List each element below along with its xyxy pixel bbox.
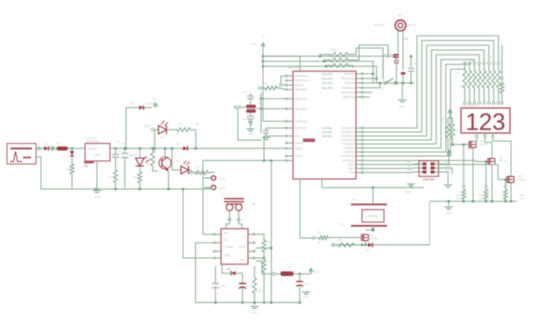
junction VCC row1 (262, 55, 265, 58)
svg-text:Q4: Q4 (518, 174, 522, 178)
resistor network RN2 (328, 58, 350, 67)
switch S1 row wire (377, 82, 415, 84)
svg-text:AGND: AGND (295, 141, 303, 145)
svg-text:S2: S2 (340, 223, 344, 226)
svg-text:RST: RST (408, 170, 413, 172)
junction C6 node (124, 147, 127, 150)
svg-text:D1: D1 (44, 142, 48, 146)
voltage regulator VR1 (84, 136, 110, 168)
svg-text:R8: R8 (441, 118, 445, 121)
resistor R12 pulldown (479, 160, 488, 201)
diode D7 (226, 267, 243, 276)
svg-text:R2: R2 (66, 167, 70, 171)
wire vertical to D3 chain (125, 108, 128, 150)
svg-text:D7: D7 (227, 267, 231, 271)
svg-text:MISO: MISO (406, 162, 412, 164)
fuse F1 (57, 142, 68, 151)
svg-text:C13: C13 (247, 285, 252, 288)
speaker SP1 buzzer (374, 13, 416, 31)
capacitor C13 tantalum (239, 276, 252, 303)
svg-text:PD0(RXD): PD0(RXD) (295, 88, 307, 92)
svg-text:GND: GND (399, 105, 405, 109)
connector JP1 pin 1 (205, 176, 226, 181)
svg-text:ADJ: ADJ (95, 153, 101, 157)
wire rn right bends (350, 48, 383, 79)
svg-text:PB4(MISO): PB4(MISO) (342, 90, 355, 94)
wire XTAL2 row (260, 107, 285, 110)
svg-text:L1: L1 (281, 278, 284, 282)
svg-text:SW200D: SW200D (368, 214, 379, 218)
component C9 small (401, 46, 405, 83)
wire F1 to VR1 (68, 147, 85, 149)
wire gnd rail to JP1 pin2 (205, 188, 215, 190)
wire C12 top (215, 266, 217, 270)
junction C5 gnd (114, 188, 117, 191)
resistor R4 below LED1 (133, 166, 142, 189)
svg-text:PC1(ADC1): PC1(ADC1) (341, 130, 355, 134)
wire IC3 right pin1 feedback (256, 234, 265, 238)
supply VCC arrow boost out (305, 269, 319, 275)
wire D3 row (126, 107, 152, 109)
inductor L1 (276, 271, 297, 282)
svg-text:PKM13: PKM13 (407, 24, 416, 27)
wire XTAL1 row (260, 97, 285, 100)
wire MCU pin row 132 (263, 136, 285, 162)
junction regulator gnd (95, 188, 98, 191)
svg-text:PB7(XTAL2): PB7(XTAL2) (295, 79, 310, 83)
supply VCC arrow main (251, 42, 265, 48)
svg-text:PC5(SCL): PC5(SCL) (343, 146, 355, 150)
wire Q3 gate (476, 161, 488, 162)
wire R5 to rail (192, 130, 196, 149)
svg-text:C11: C11 (304, 283, 309, 286)
wire crystal left route down (238, 109, 262, 141)
junction switch node (395, 82, 412, 85)
svg-text:10K: 10K (456, 198, 461, 201)
ground GND rail B (251, 301, 259, 314)
junction node VIN (71, 147, 74, 150)
ground arrow crystal (247, 122, 255, 137)
resistor R14 segment (482, 62, 486, 102)
resistor R6 base (146, 147, 155, 168)
junction C5 node (114, 147, 117, 150)
wire VCC row1 to buzzer cap (263, 55, 396, 57)
svg-text:LED2: LED2 (144, 124, 151, 128)
resistor R13 segment (477, 62, 481, 102)
label segment resistors (455, 56, 493, 89)
pin circle seg 7 (497, 102, 500, 105)
svg-text:PD1(TXD): PD1(TXD) (295, 97, 307, 101)
wire MCU pin row to net (203, 160, 285, 162)
svg-text:R10: R10 (455, 72, 460, 75)
wire ISP mosi bend (444, 168, 452, 174)
svg-text:VCC: VCC (251, 42, 257, 46)
display LED1 7-segment 123 (461, 104, 510, 136)
resistor R3 (109, 168, 118, 189)
svg-text:GND: GND (248, 133, 254, 136)
transistor Q2 digit1 (469, 139, 488, 148)
resistor R18 segment (500, 77, 504, 101)
svg-text:MT: MT (288, 266, 292, 269)
pin circle xfmr (228, 218, 240, 221)
wire VCC to MCU VCC pin (263, 55, 300, 57)
pin circle (38, 147, 41, 150)
svg-text:BUZZER: BUZZER (374, 24, 384, 27)
wire tilt sensor top (372, 188, 374, 205)
svg-text:OUT2: OUT2 (218, 187, 226, 191)
diode D3 (130, 102, 155, 111)
svg-text:C5: C5 (116, 141, 120, 144)
junction L1 out (297, 273, 305, 276)
svg-text:D4: D4 (176, 142, 180, 146)
ground GND regulator (93, 191, 101, 199)
transistor Q5 tilt driver (362, 233, 380, 241)
wire X1 to D1 (36, 147, 44, 149)
capacitor C3 crystal load (243, 91, 254, 105)
wire to LED2 (155, 130, 158, 149)
pin circle buzzer node (395, 57, 398, 83)
wire Q2 drain (473, 138, 477, 142)
wire T1 emitter to ground rail (168, 172, 170, 189)
wire Q5 gate row (330, 237, 362, 239)
wire Q2 source (472, 148, 474, 201)
wire X1 return to ground rail (36, 157, 96, 189)
svg-text:AVR ISP: AVR ISP (423, 177, 435, 181)
svg-text:1K: 1K (317, 242, 320, 245)
wire Q4 source (510, 183, 512, 201)
svg-text:10K: 10K (520, 198, 525, 201)
wire VCC stem (262, 48, 264, 66)
svg-text:GND: GND (252, 311, 258, 315)
svg-text:1N4148: 1N4148 (145, 102, 155, 106)
svg-text:Q2: Q2 (480, 139, 484, 143)
svg-text:PB6(XTAL1): PB6(XTAL1) (295, 74, 310, 78)
svg-text:SV1: SV1 (418, 155, 423, 158)
capacitor C5 (112, 148, 121, 168)
wire mcu top pins to switch area (364, 73, 374, 76)
display bottom pins (475, 133, 494, 138)
wire AVCC branch (263, 66, 285, 121)
junction sensor bottom (372, 228, 375, 231)
pin circle seg 3 (478, 102, 481, 105)
wire feedback junction (256, 254, 266, 259)
svg-text:C7: C7 (270, 131, 274, 134)
svg-text:AREF: AREF (295, 147, 302, 151)
svg-text:SP1: SP1 (397, 13, 403, 17)
resistor R16 feedback (262, 238, 271, 254)
resistor R7 sensor out (191, 166, 210, 175)
wire zener branch to ground rail (71, 176, 73, 189)
wire net to JP1 pin1 (202, 161, 210, 179)
svg-text:100u: 100u (220, 285, 226, 288)
resistor R15 (336, 239, 356, 247)
junction VCC row3 (262, 65, 265, 68)
zener diode D2 (70, 148, 74, 162)
svg-text:T (MAX): T (MAX) (224, 246, 233, 249)
wire bus nest segment a-g (364, 36, 499, 156)
resistor R17 segment (497, 62, 501, 102)
wire VCC row3 (263, 66, 377, 83)
svg-text:GND: GND (446, 212, 452, 215)
connector SV1 AVR ISP (406, 161, 451, 182)
wire ISP vcc pin (444, 151, 451, 165)
pin circle seg 8 (501, 102, 504, 105)
wire sensor out to node (196, 171, 215, 174)
resistor R13 pulldown (504, 178, 526, 201)
svg-text:VCC: VCC (314, 271, 319, 274)
svg-text:GND: GND (303, 296, 309, 299)
wire Q4 gate (498, 165, 507, 180)
junction LED1 node (139, 147, 142, 150)
boost converter IC3 (221, 229, 248, 270)
svg-text:PC3(ADC3): PC3(ADC3) (341, 138, 355, 142)
svg-text:PC0(ADC0): PC0(ADC0) (341, 126, 355, 130)
svg-text:LX: LX (243, 236, 246, 239)
supply VCC arrow after D3 (152, 97, 158, 108)
svg-text:R16: R16 (266, 241, 271, 244)
ground aref cap (262, 138, 270, 140)
svg-text:AVCC: AVCC (295, 154, 302, 158)
svg-text:PB1(OC1A): PB1(OC1A) (341, 77, 355, 81)
IR LED D5 (176, 159, 191, 174)
connector X1 power jack (7, 144, 36, 165)
svg-text:2N7000: 2N7000 (370, 238, 379, 241)
svg-text:SCK: SCK (408, 166, 413, 168)
svg-text:330: 330 (488, 56, 493, 59)
wire R8 R9 tops to vcc (448, 110, 453, 123)
svg-text:IC3: IC3 (234, 266, 239, 270)
svg-text:R3: R3 (109, 175, 113, 179)
capacitor C6 electrolytic (121, 148, 132, 189)
wire Q3 drain (485, 138, 492, 158)
svg-text:C3: C3 (243, 91, 247, 94)
svg-text:BS170: BS170 (499, 160, 507, 163)
svg-text:Zero Ref: Zero Ref (322, 81, 333, 85)
svg-text:R5: R5 (176, 132, 180, 136)
pin circle seg 0 (464, 102, 467, 105)
svg-text:+: + (252, 202, 256, 208)
wire R6 to base (153, 168, 158, 171)
svg-text:2nd Dig: 2nd Dig (322, 134, 332, 138)
ground GND buzzer (398, 100, 406, 109)
svg-text:R9: R9 (455, 130, 459, 133)
svg-text:D3: D3 (130, 102, 134, 106)
svg-text:RESET: RESET (295, 83, 304, 87)
svg-text:PD7(AIN1): PD7(AIN1) (342, 159, 355, 163)
svg-text:D6: D6 (366, 249, 370, 252)
svg-text:LED1: LED1 (130, 153, 137, 157)
capacitor C4 crystal load (243, 113, 254, 121)
svg-text:R18: R18 (257, 290, 262, 293)
resistor R5 (175, 122, 192, 136)
svg-text:470: 470 (178, 122, 183, 126)
transistor Q4 digit3 (507, 174, 526, 183)
svg-text:ADC6: ADC6 (348, 163, 355, 167)
svg-text:TILT: TILT (352, 199, 357, 202)
resistor network RN1 (328, 48, 350, 57)
svg-text:PB2(SS): PB2(SS) (345, 81, 355, 85)
svg-text:PD2(INT0): PD2(INT0) (295, 107, 308, 111)
wire IC3 pin1 net (203, 233, 213, 235)
wire crystal left pins (234, 106, 246, 109)
wire VCC row2 (263, 61, 373, 83)
wire bottom rail B (196, 302, 300, 304)
sensor S2 tilt switch (351, 199, 387, 226)
wire IC3 vout pin (256, 159, 273, 302)
junction tilt row (361, 244, 364, 247)
svg-text:R7: R7 (196, 166, 200, 170)
svg-text:123: 123 (465, 109, 505, 136)
wire buzzer right pin (403, 31, 409, 46)
svg-text:PB0(ICP): PB0(ICP) (344, 72, 355, 76)
wire reset stub up (281, 76, 285, 84)
junction R4 gnd (139, 188, 142, 191)
wire tilt bottom row (333, 244, 430, 246)
IC3 pins left (213, 233, 221, 259)
wire MCU rows to ISP (364, 168, 413, 170)
wire IC3 out pin to inductor (256, 261, 272, 274)
LED LED1 (130, 148, 150, 166)
resistor R11 pulldown (456, 143, 466, 201)
ground arrow near header (405, 184, 415, 194)
resistor network RN3 (328, 64, 350, 68)
capacitor C8 buzzer (388, 49, 399, 57)
wire LED2 to R5 (167, 129, 176, 131)
wire xfmr to IC3 (226, 222, 230, 229)
svg-text:C5: C5 (118, 150, 122, 154)
wire tilt sensor bottom to Q5 drain (366, 226, 373, 231)
svg-text:Zero Ref: Zero Ref (322, 86, 333, 90)
svg-text:JP1: JP1 (205, 173, 210, 176)
resistor R15 segment (487, 62, 491, 102)
svg-text:Q3: Q3 (499, 155, 503, 159)
svg-text:GND: GND (405, 191, 411, 194)
wire tilt row (322, 187, 424, 189)
resistor R17 feedback lower (262, 258, 266, 304)
resistor R12 segment (472, 62, 476, 102)
svg-text:PD3(INT1): PD3(INT1) (295, 119, 308, 123)
svg-text:C4: C4 (243, 118, 247, 121)
wire Q3 source (491, 165, 493, 201)
svg-text:10u: 10u (121, 144, 126, 146)
svg-text:GND: GND (224, 254, 230, 257)
microcontroller IC1 MEGA8-P (285, 66, 364, 180)
junction R5 node (195, 147, 198, 150)
svg-text:C8: C8 (388, 49, 392, 53)
resistor R11 segment (468, 62, 472, 102)
wire crystal right vertical (256, 93, 261, 133)
diode D1 (44, 142, 49, 151)
capacitor C10 (408, 55, 418, 83)
pin circle seg 2 (473, 102, 476, 105)
svg-text:VCC: VCC (295, 134, 301, 138)
capacitor C12 electrolytic (212, 270, 226, 303)
wire buzzer left pin (397, 31, 399, 55)
IC3 pins right (248, 233, 256, 259)
resistor R2 (66, 162, 74, 176)
svg-text:GND: GND (349, 171, 355, 175)
junction VCC row2 (262, 60, 265, 63)
LED LED2 power indicator (144, 121, 168, 140)
svg-text:PB3(MOSI): PB3(MOSI) (342, 86, 355, 90)
svg-text:RN1A: RN1A (330, 48, 337, 52)
svg-text:LED DISPLAY: LED DISPLAY (462, 104, 478, 107)
ground GND display rail (445, 200, 453, 215)
wire D5 feed (171, 147, 176, 170)
wire Q5 source (364, 241, 367, 246)
wire Q2 gate (453, 144, 470, 146)
wire IC3 pin2 to bottom rail (196, 243, 213, 303)
svg-text:F1: F1 (57, 142, 61, 146)
junction tilt row (372, 186, 375, 189)
svg-text:PD4(XCK): PD4(XCK) (295, 126, 307, 130)
svg-text:SB+: SB+ (160, 136, 165, 140)
svg-text:10K: 10K (479, 198, 484, 201)
svg-text:R4: R4 (133, 175, 137, 179)
svg-text:PB5(SCK): PB5(SCK) (343, 95, 355, 99)
opto transistor T1 (153, 147, 171, 172)
svg-text:Zero Ref: Zero Ref (322, 72, 333, 76)
wire source ground rail (430, 200, 517, 202)
wire rn join left (263, 55, 328, 62)
svg-text:L2: L2 (222, 193, 225, 197)
svg-text:R19: R19 (263, 82, 268, 86)
wire to gnd buzzer (401, 83, 403, 99)
svg-text:Q5: Q5 (370, 233, 374, 237)
labels misc (116, 36, 472, 269)
wire IC3 pin4 from gnd rail (183, 189, 213, 258)
resistor R14 tilt gate (315, 232, 330, 246)
svg-text:Zero Ref: Zero Ref (322, 77, 333, 81)
wire MCU to tilt gate row (300, 179, 310, 238)
junction power LED node (153, 147, 156, 150)
svg-text:D5: D5 (176, 159, 180, 163)
pin circle LED2 anode (151, 128, 154, 131)
resistor R9 (451, 122, 459, 140)
connector JP1 pin 2 (205, 185, 226, 190)
svg-text:S1: S1 (380, 87, 384, 91)
svg-text:R14: R14 (317, 232, 322, 235)
svg-text:PD6(AIN0): PD6(AIN0) (342, 154, 355, 158)
switch S1 (380, 78, 397, 91)
wire VCC rail (110, 147, 285, 149)
wire gate rows from MCU (364, 160, 476, 162)
pin circle tilt gate (310, 237, 315, 240)
pin circle seg 6 (492, 102, 495, 105)
pin circle seg 4 (483, 102, 486, 105)
pin circle inductor in (273, 272, 276, 275)
transistor Q3 digit2 (488, 155, 507, 165)
transformer L2 coupled inductor (222, 193, 256, 211)
svg-text:PC2(ADC2): PC2(ADC2) (341, 134, 355, 138)
wire transformer pins down (230, 211, 239, 222)
wire R9 to gate node (451, 140, 454, 146)
diode D6 (366, 243, 373, 253)
resistor R16 segment (492, 62, 496, 102)
svg-text:CE-: CE- (224, 239, 228, 242)
svg-text:R15: R15 (338, 239, 343, 242)
svg-text:CE+: CE+ (224, 232, 229, 235)
svg-text:BS170: BS170 (518, 179, 526, 182)
wire segment DP line (501, 45, 503, 77)
svg-text:P+: P+ (262, 36, 266, 39)
ground rail wire (41, 188, 215, 190)
wire VR1 ground pin (96, 161, 98, 189)
wire R8 down to reset (403, 140, 448, 156)
resistor R10 segment (463, 62, 467, 102)
svg-text:VCC: VCC (152, 97, 158, 101)
wire rail down corner (333, 201, 430, 245)
